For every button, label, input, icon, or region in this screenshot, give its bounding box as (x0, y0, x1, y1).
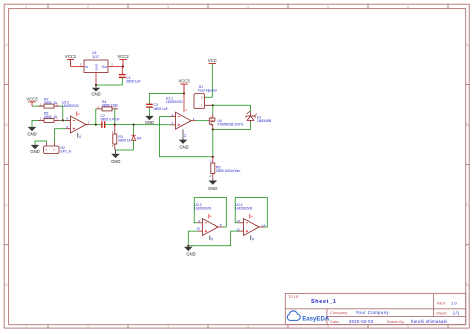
regulator U3 (80, 51, 114, 85)
svg-text:10: 10 (196, 227, 200, 231)
svg-text:6: 6 (67, 117, 69, 121)
svg-text:PSMN03B-100YL: PSMN03B-100YL (218, 123, 245, 127)
svg-text:11: 11 (251, 237, 255, 240)
svg-text:VCC: VCC (208, 58, 217, 63)
svg-text:LM2902VD: LM2902VD (194, 207, 212, 211)
feedback loop U2.4 (235, 198, 267, 228)
wire opamp out to C2 (91, 124, 102, 126)
svg-text:GND: GND (95, 63, 99, 71)
power flag VCC3 (117, 54, 129, 67)
ground (spare) (184, 247, 196, 257)
svg-text:1/1: 1/1 (453, 311, 460, 316)
svg-text:EasyEDA: EasyEDA (302, 315, 330, 322)
svg-text:11: 11 (78, 135, 82, 138)
svg-text:B: B (466, 123, 468, 127)
wire C3 bottom to GND (149, 107, 151, 116)
svg-text:1N5349B: 1N5349B (257, 119, 272, 123)
resistor R2 (38, 97, 60, 108)
svg-text:4: 4 (247, 325, 249, 329)
junction drain node (212, 104, 214, 106)
wire U2.3 +in to GND rail (188, 231, 197, 246)
junction D4 (133, 124, 135, 126)
wire divider node to op-amp (60, 119, 66, 121)
wire R3/D4 bottom rail (115, 149, 134, 151)
wire H1 pin1 to drain node (205, 104, 213, 106)
svg-text:5: 5 (327, 5, 329, 9)
ground (R6) (27, 127, 36, 136)
svg-text:0805 0.47uF: 0805 0.47uF (101, 118, 120, 122)
junction GND node (95, 84, 97, 86)
svg-text:EP1_in: EP1_in (61, 149, 72, 153)
resistor R3 (112, 125, 131, 150)
diode D4 (132, 125, 142, 150)
ground (U2.1) (179, 138, 189, 150)
svg-text:7: 7 (88, 121, 90, 125)
svg-text:3: 3 (167, 325, 169, 329)
wire C1 to GND rail (96, 77, 122, 85)
svg-text:LM2902VD: LM2902VD (62, 104, 80, 108)
wire VCC3 to R2 (32, 105, 44, 107)
wire R2 to divider node (60, 106, 63, 120)
svg-text:GND: GND (111, 159, 120, 164)
svg-text:2: 2 (87, 325, 89, 329)
svg-text:11: 11 (210, 237, 214, 240)
svg-text:1: 1 (193, 117, 195, 121)
svg-text:GND: GND (145, 120, 154, 125)
power flag VCC2 (65, 54, 77, 67)
power flag VCC3 (U2.1) (178, 79, 190, 94)
capacitor C2 (101, 114, 120, 128)
svg-text:0805 1k: 0805 1k (118, 139, 130, 143)
connector H2 (44, 143, 72, 154)
svg-text:LM2902VD: LM2902VD (166, 100, 184, 104)
svg-text:1.0: 1.0 (451, 300, 457, 305)
svg-text:GND: GND (208, 186, 217, 191)
svg-text:Sheet_1: Sheet_1 (311, 299, 337, 305)
svg-text:2: 2 (172, 113, 174, 117)
svg-text:Your Company: Your Company (356, 310, 390, 315)
ground (R3/D4) (111, 150, 120, 164)
svg-text:0805 1uF: 0805 1uF (154, 107, 168, 111)
svg-text:1117: 1117 (92, 55, 99, 59)
wire gate (196, 120, 208, 122)
svg-text:6: 6 (407, 5, 409, 9)
svg-text:0805 100mOhm: 0805 100mOhm (216, 169, 240, 173)
power flag VCC (208, 58, 217, 68)
wire U2.4 +in to GND rail (188, 231, 238, 246)
wire H2 pin2 to op-amp +in (55, 129, 66, 143)
svg-text:REV:: REV: (437, 300, 446, 305)
ground (regulator) (91, 85, 100, 96)
wire C3 top to VCC3 node (150, 93, 185, 104)
wire R4 right branch (114, 109, 116, 125)
wire C2 to U2.1 (105, 124, 171, 126)
resistor R5 sense (210, 157, 241, 181)
svg-text:GND: GND (27, 131, 36, 136)
zener D1 (246, 111, 272, 123)
connector H1 (194, 85, 218, 109)
svg-text:Out: Out (102, 65, 107, 69)
junction divider (62, 119, 64, 121)
wire zener bottom to source node (213, 122, 251, 129)
svg-text:VCC3: VCC3 (117, 54, 129, 59)
ground (R5) (208, 181, 217, 192)
ground (C3) (145, 116, 154, 125)
svg-text:Sheet:: Sheet: (436, 311, 448, 316)
svg-text:8: 8 (220, 223, 222, 227)
svg-text:2020-02-03: 2020-02-03 (349, 319, 374, 324)
ground (H2) (30, 145, 39, 154)
junction GND rail (187, 245, 189, 247)
wire H2 pin1 to GND (35, 141, 47, 145)
resistor R6 (38, 112, 60, 123)
mosfet U4 (208, 105, 245, 129)
wire drain node to zener (213, 105, 251, 111)
svg-text:VCC3: VCC3 (178, 79, 190, 84)
svg-text:VCC3: VCC3 (26, 96, 38, 101)
svg-text:GND: GND (91, 91, 100, 96)
junction (122, 65, 124, 67)
op-amp U2.3 (194, 203, 223, 241)
svg-text:5: 5 (67, 125, 69, 129)
svg-text:6: 6 (407, 325, 409, 329)
op-amp U2.2 (62, 100, 91, 138)
junction source node (212, 128, 214, 130)
svg-text:3: 3 (167, 5, 169, 9)
wire R4 left branch (95, 109, 97, 125)
svg-text:TITLE:: TITLE: (288, 295, 299, 299)
junction R3 (114, 124, 116, 126)
svg-text:Company:: Company: (330, 310, 348, 315)
svg-text:haruhi.shimasaki: haruhi.shimasaki (411, 319, 447, 324)
svg-text:Date:: Date: (330, 319, 340, 324)
svg-text:GND: GND (30, 149, 39, 154)
wire to C1 (121, 67, 123, 75)
svg-text:GND: GND (186, 252, 195, 257)
svg-text:Drawn By:: Drawn By: (387, 319, 405, 324)
svg-text:13: 13 (236, 219, 240, 223)
wire VCC to H1 pin2 (205, 68, 213, 97)
capacitor C3 (146, 103, 168, 111)
wire source to sense node (212, 129, 214, 156)
svg-text:B: B (5, 123, 7, 127)
svg-text:0805 1uF: 0805 1uF (126, 80, 140, 84)
svg-text:VCC2: VCC2 (65, 54, 77, 59)
op-amp U2.4 (235, 203, 265, 241)
svg-text:LM2902VD: LM2902VD (235, 207, 253, 211)
svg-text:1: 1 (25, 5, 27, 9)
svg-text:In: In (85, 65, 88, 69)
svg-text:3: 3 (172, 121, 174, 125)
power flag VCC3 (left) (26, 96, 38, 106)
wire U3 out to VCC3/C1 (108, 66, 123, 68)
feedback wire U2.1 (160, 117, 213, 157)
feedback loop U2.3 (194, 198, 226, 228)
svg-text:GND: GND (179, 144, 188, 149)
op-amp U2.1 (166, 93, 196, 137)
svg-text:2: 2 (87, 5, 89, 9)
svg-text:4: 4 (247, 5, 249, 9)
svg-text:5: 5 (327, 325, 329, 329)
EasyEDA logo (287, 311, 330, 323)
resistor R4 (96, 100, 118, 111)
svg-text:12: 12 (236, 227, 240, 231)
junction sense node (212, 156, 214, 158)
wire VCC2 to U3 pin3 (71, 66, 85, 68)
svg-text:D4: D4 (137, 136, 141, 140)
title text (288, 295, 460, 324)
svg-text:1: 1 (25, 325, 27, 329)
junction VCC3 node (183, 92, 185, 94)
svg-text:9: 9 (198, 219, 200, 223)
capacitor C1 (119, 75, 141, 84)
svg-text:Fuel Injector: Fuel Injector (198, 89, 218, 93)
svg-text:11: 11 (183, 134, 187, 137)
junction R4 left (95, 124, 97, 126)
wire R6 left to GND (32, 120, 38, 127)
